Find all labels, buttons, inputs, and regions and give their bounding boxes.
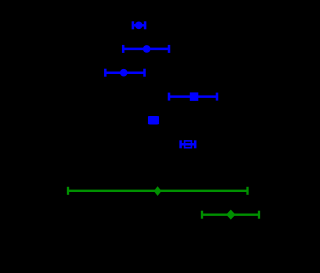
errorbar series 4 row 8 green diamond (68, 186, 248, 196)
errorbar series 1 row 2 (123, 45, 169, 53)
errorbar series 2 row 5 square marker tiny CI (149, 116, 158, 125)
errorbar series 3 row 6 open square marker (181, 140, 196, 148)
errorbar series 4 row 9 green diamond (202, 210, 259, 220)
errorbar series 2 row 4 square marker (169, 92, 217, 101)
errorbar series 1 row 1 (133, 21, 145, 29)
errorbar series 1 row 3 (105, 69, 144, 77)
